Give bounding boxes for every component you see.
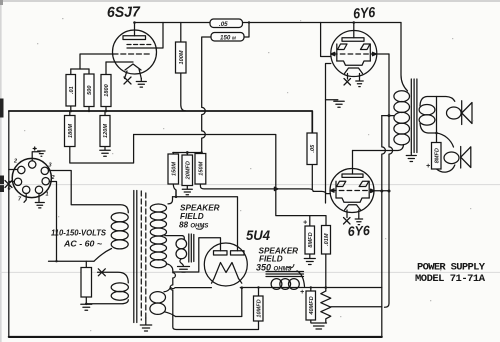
svg-text:POWER SUPPLY: POWER SUPPLY — [417, 262, 486, 274]
svg-text:150 M: 150 M — [220, 34, 236, 41]
svg-text:.01M: .01M — [324, 233, 330, 246]
svg-text:180M: 180M — [68, 124, 74, 138]
svg-text:5U4: 5U4 — [246, 228, 270, 243]
svg-text:40MFD: 40MFD — [309, 296, 315, 315]
svg-text:6SJ7: 6SJ7 — [107, 4, 141, 21]
svg-text:20MFD: 20MFD — [185, 161, 191, 180]
svg-text:120M: 120M — [103, 124, 109, 138]
svg-text:10MFD: 10MFD — [256, 299, 262, 317]
svg-text:AC - 60 ~: AC - 60 ~ — [63, 239, 102, 249]
svg-text:110-150-VOLTS: 110-150-VOLTS — [51, 228, 106, 238]
svg-text:.01: .01 — [69, 86, 75, 94]
svg-text:1: 1 — [46, 192, 49, 198]
svg-text:3: 3 — [49, 163, 52, 169]
svg-text:8MFD: 8MFD — [308, 232, 314, 247]
svg-text:+: + — [300, 289, 304, 296]
svg-text:.05: .05 — [310, 144, 316, 153]
svg-text:.05: .05 — [219, 21, 228, 28]
svg-text:2: 2 — [51, 175, 55, 181]
svg-text:6Y6: 6Y6 — [353, 5, 377, 23]
svg-text:1800: 1800 — [104, 83, 110, 96]
svg-text:150M: 150M — [171, 162, 177, 176]
svg-text:MODEL 71-71A: MODEL 71-71A — [415, 273, 486, 285]
svg-text:8MFD: 8MFD — [434, 148, 440, 163]
svg-text:+: + — [426, 163, 430, 170]
svg-text:500: 500 — [87, 85, 93, 95]
svg-text:2: 2 — [13, 159, 17, 165]
svg-text:150M: 150M — [199, 161, 205, 175]
svg-text:6Y6: 6Y6 — [347, 223, 370, 239]
svg-text:+: + — [303, 220, 307, 227]
svg-text:100M: 100M — [179, 50, 185, 64]
